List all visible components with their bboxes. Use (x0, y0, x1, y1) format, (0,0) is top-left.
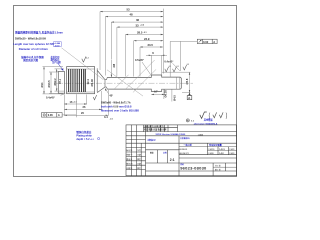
bottom dim 20 (64, 90, 108, 116)
svg-text:镀锌白色蓝白: 镀锌白色蓝白 (76, 130, 92, 134)
svg-text:-0.1: -0.1 (143, 32, 146, 34)
svg-text:both with 6.09 mm Ø10.8: both with 6.09 mm Ø10.8 (101, 105, 132, 109)
left dia 14 dimension (43, 67, 64, 94)
svg-text:3.2: 3.2 (86, 57, 89, 59)
surface finish marks above title block (200, 112, 207, 118)
svg-text:A: A (58, 113, 60, 117)
svg-text:48: 48 (130, 13, 134, 17)
svg-text:54-8.34.971: 54-8.34.971 (179, 152, 189, 155)
rotated dia labels right bottom (163, 90, 165, 100)
bottom dim 16 +0.2 (64, 95, 86, 116)
svg-text:9.7: 9.7 (154, 90, 158, 93)
svg-text:Ø7.4: Ø7.4 (59, 78, 62, 84)
roughness marks on journals (165, 67, 169, 72)
dimension cascade row 28.5 -0.1 (126, 35, 164, 77)
svg-text:12.4: 12.4 (86, 79, 90, 85)
right vertical dia dim (162, 72, 190, 92)
svg-text:0.5x45°: 0.5x45° (135, 58, 144, 62)
svg-text:3.2: 3.2 (177, 66, 179, 68)
svg-text:Plating white: Plating white (76, 134, 92, 137)
feature control frame (runout) top right (197, 39, 217, 43)
upper mini row dividers (143, 125, 145, 132)
dimension cascade row 48 (105, 17, 163, 76)
svg-text:+0.2: +0.2 (140, 25, 144, 27)
title block outer (126, 125, 237, 176)
long reference diagonal G1 (62, 48, 104, 80)
shaft profile (107, 75, 181, 91)
dimension row 6 (collar width, outside arrows) (146, 55, 167, 75)
drawing frame border (14, 6, 237, 177)
verticals (130, 125, 132, 176)
break line diagonal G2 (107, 70, 143, 96)
section diagonal B (126, 60, 155, 89)
circled plus and note (186, 119, 189, 122)
svg-text:36: 36 (136, 18, 140, 22)
centerline of shaft (54, 82, 193, 84)
dimension cascade row 33 +0.2 (117, 27, 163, 76)
svg-text:Ø9.46: Ø9.46 (90, 79, 94, 87)
svg-text:Ø12.2: Ø12.2 (53, 78, 57, 86)
svg-text:Diameter of roll 1.0mm: Diameter of roll 1.0mm (19, 47, 49, 51)
svg-text:96-058-01: 96-058-01 (179, 149, 188, 151)
svg-text:A: A (213, 40, 215, 44)
svg-text:Ø6.35: Ø6.35 (164, 90, 168, 98)
journal groove lines (175, 77, 177, 89)
svg-text:Ø14: Ø14 (40, 82, 44, 87)
worm root lines (67, 68, 95, 70)
svg-text:Measured over 3 balls Ø10.88: Measured over 3 balls Ø10.888 (101, 109, 139, 113)
dimension cascade row 53 (100, 12, 163, 70)
svg-text:F-45/1: F-45/1 (219, 152, 224, 155)
dimension cascade row 23.9 (134, 41, 164, 77)
9.7 dim under journal (151, 89, 164, 94)
section diagonal A (114, 75, 128, 89)
svg-text:Ø4.5: Ø4.5 (173, 95, 177, 101)
svg-text:0.02: 0.02 (203, 40, 209, 44)
dia 8 vertical dim above shaft (110, 60, 112, 78)
svg-text:F-45/1: F-45/1 (230, 152, 235, 155)
svg-text:F-45/10: F-45/10 (219, 148, 225, 151)
tolerance stack after 12.795 (54, 42, 62, 47)
common right extension line of cascade (162, 9, 164, 74)
svg-text:1.0808: 1.0808 (198, 134, 203, 136)
FCF leader and extension lines (170, 40, 197, 42)
svg-text:测量跨棒距时的测量力,见蓝色标注1.5mm: 测量跨棒距时的测量力,见蓝色标注1.5mm (15, 31, 64, 35)
svg-text:depth > 5.2 +0.1: depth > 5.2 +0.1 (76, 138, 93, 141)
dimension cascade row 23.5 (140, 47, 163, 77)
svg-text:Ø8: Ø8 (112, 63, 116, 67)
bottom-left feature control frame (42, 113, 63, 118)
svg-text:0.4x45°: 0.4x45° (46, 95, 55, 99)
svg-text:0.06: 0.06 (48, 113, 54, 117)
svg-text:(日期) (签字) (日期) (签字): (日期) (签字) (日期) (签字) (144, 125, 164, 128)
cone transition (97, 70, 105, 79)
svg-text:3.4: 3.4 (104, 115, 108, 119)
bottom dim 26 (64, 91, 101, 110)
svg-text:53: 53 (127, 8, 131, 12)
svg-text:F-45/10: F-45/10 (209, 148, 215, 151)
svg-text:F-45/1: F-45/1 (230, 148, 235, 151)
svg-text:Ø5.8: Ø5.8 (185, 78, 189, 84)
full horizontals (126, 131, 237, 133)
roughness mark on worm (82, 57, 86, 63)
svg-text:2:1: 2:1 (170, 158, 175, 162)
left revision column lines (126, 139, 146, 141)
svg-text:96023-08030: 96023-08030 (180, 165, 207, 170)
neck step to shaft (105, 77, 107, 89)
svg-text:DW5x60 - W9x0.8x71 7h: DW5x60 - W9x0.8x71 7h (101, 100, 131, 104)
svg-text:45°: 45° (109, 93, 113, 97)
svg-text:-0.1: -0.1 (110, 118, 113, 120)
worm thread hatch (69, 69, 86, 92)
scale cell dividers (157, 150, 159, 163)
svg-text:深度见放大图: 深度见放大图 (23, 58, 39, 62)
svg-text:DW3x30 - W9x0.8x18 8H: DW3x30 - W9x0.8x18 8H (15, 36, 46, 40)
svg-text:XXXX Version 9 96046-13500: XXXX Version 9 96046-13500 (156, 133, 186, 136)
svg-text:0.4x45°: 0.4x45° (164, 59, 173, 63)
svg-text:Ø10.5: Ø10.5 (47, 80, 51, 88)
cone base line (96, 68, 98, 92)
left dia 10.5 dimension (49, 72, 58, 94)
left dia 12.2 dimension (55, 69, 65, 91)
svg-text:33: 33 (136, 23, 140, 27)
svg-text:23.5: 23.5 (148, 43, 154, 47)
dimension cascade row 36 (111, 22, 163, 59)
worm body (67, 67, 95, 94)
datum A flag (189, 93, 191, 96)
worm shaft left stub (58, 72, 64, 94)
roughness mark below cone (93, 95, 97, 100)
svg-text:28.5: 28.5 (137, 31, 143, 35)
svg-text:-0.110: -0.110 (54, 45, 59, 47)
svg-text:Length over two spheres 12.795: Length over two spheres 12.795 (13, 42, 54, 46)
svg-text:23.9: 23.9 (144, 37, 150, 41)
blue leader arrow to stub (58, 63, 64, 70)
svg-text:3.2: 3.2 (169, 66, 171, 68)
svg-text:3.2: 3.2 (187, 64, 189, 66)
svg-text:F-45/8: F-45/8 (209, 152, 214, 155)
section diagonal C (133, 69, 156, 92)
